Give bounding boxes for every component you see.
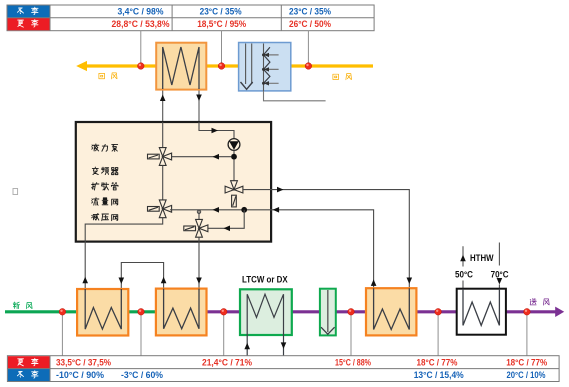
pipe pump to junction	[233, 150, 235, 156]
top table column borders	[50, 5, 281, 31]
supply air line (purple)	[207, 310, 556, 313]
bottom sensor drop line 4	[350, 314, 352, 356]
top table frame	[7, 5, 374, 31]
label ye-li-beng (hydraulic pump)	[92, 144, 99, 151]
bottom table frame	[7, 356, 559, 382]
pipe junction to valve V1	[170, 156, 231, 158]
sensor drop line 2 (top)	[221, 31, 223, 64]
three-way valve V1	[148, 148, 172, 166]
circulating pump	[228, 139, 240, 151]
preheat coil HX1 (orange)	[77, 289, 128, 336]
svg-text:23°C / 35%: 23°C / 35%	[200, 7, 242, 17]
bottom sensor drop line 1	[61, 314, 63, 356]
valve V4 stem up	[198, 211, 200, 220]
small junction ring at valve V4 stem	[197, 210, 200, 213]
bottom table header cell summer (red)	[8, 356, 50, 368]
top table winter values (blue)	[118, 7, 332, 17]
bottom table summer values (red)	[56, 357, 547, 367]
sensor drop line 3 (top)	[307, 31, 309, 64]
arrow up on HTHW left pipe	[460, 255, 466, 261]
red sensor node bottom 5	[435, 309, 442, 316]
HTHW heater box	[457, 289, 506, 335]
bottom sensor drop line 5	[437, 314, 439, 356]
arrow up into recovery coil left pipe	[160, 95, 166, 102]
red sensor node bottom 3	[220, 309, 227, 316]
pipe valve V4 down out of box to coil HX2	[198, 237, 200, 288]
svg-text:50°C: 50°C	[455, 270, 474, 280]
bottom table header column border	[49, 356, 51, 382]
svg-text:-3°C / 60%: -3°C / 60%	[121, 370, 163, 380]
pipe junction B down to valve V4 branch	[206, 210, 244, 229]
pipe valve V1 to valve V2	[162, 165, 164, 200]
red sensor node bottom 2	[138, 309, 145, 316]
series link pipe HX2 left to HX1 right	[121, 263, 163, 289]
label xin-feng (fresh air, green)	[13, 302, 19, 309]
bottom sensor drop line 3	[223, 314, 225, 356]
header text xia-ji (summer) white	[18, 20, 24, 27]
pipe from recovery HX down-left into control box	[162, 47, 164, 122]
red sensor node on yellow line 1	[138, 63, 145, 70]
top table header cell winter (blue)	[8, 6, 51, 18]
arrow right leaving control box	[277, 187, 284, 193]
svg-text:13°C / 15,4%: 13°C / 15,4%	[414, 370, 464, 380]
sensor drop line 1 (top)	[140, 31, 142, 64]
junction node B	[241, 207, 247, 213]
arrow up out of coil HX3 left pipe	[371, 279, 377, 286]
junction node A	[231, 154, 237, 160]
pipe valve V3 right out of box to coil HX3	[243, 190, 409, 288]
pipe top HX into valve V1	[162, 122, 164, 148]
label jian-ya-fa (pressure reducing valve)	[92, 213, 99, 220]
reheat coil HX3 (orange)	[366, 288, 416, 335]
steam humidifier box (blue)	[239, 43, 291, 91]
header text xia-ji (summer) white	[18, 359, 24, 366]
cooling coil LTCW/DX (green)	[240, 289, 292, 355]
return air arrowhead (left)	[76, 61, 87, 71]
top table header cell summer (red)	[8, 18, 51, 30]
arrow down out of cooling coil	[281, 342, 287, 349]
svg-text:26°C / 50%: 26°C / 50%	[289, 19, 331, 29]
red sensor node bottom 4	[348, 309, 355, 316]
HTHW pipe up (50C)	[462, 246, 464, 289]
arrow down into heater	[497, 278, 503, 285]
svg-text:18°C / 77%: 18°C / 77%	[506, 357, 547, 367]
arrow down out of recovery coil right pipe	[196, 95, 202, 102]
svg-text:15°C / 88%: 15°C / 88%	[335, 357, 371, 367]
red sensor node bottom 1	[59, 309, 66, 316]
red sensor node on yellow line 3	[305, 63, 312, 70]
svg-text:23°C / 35%: 23°C / 35%	[289, 7, 331, 17]
top table row divider	[7, 17, 374, 19]
header text dong-ji (winter) white	[17, 371, 23, 377]
top table summer values (red)	[112, 19, 332, 29]
bottom table header cell winter (blue)	[8, 369, 50, 381]
label kuo-zhang-guan (expansion pipe)	[92, 183, 99, 190]
fresh air line (green)	[5, 310, 156, 313]
svg-text:-10°C / 90%: -10°C / 90%	[56, 370, 104, 380]
bottom sensor drop line 2	[140, 314, 142, 356]
arrow left entering control box	[273, 207, 280, 213]
arrow left toward valve V1	[213, 154, 220, 160]
return air line (yellow)	[86, 64, 373, 67]
supply air arrowhead	[555, 307, 564, 317]
bottom table row divider	[7, 368, 559, 370]
label hui-feng right (return air)	[333, 74, 339, 79]
pipe from recovery HX down-right into control box	[198, 47, 200, 122]
svg-text:HTHW: HTHW	[470, 253, 494, 263]
red sensor node on yellow line 2	[218, 63, 225, 70]
stray tofu glyph box	[13, 189, 18, 195]
red sensor node bottom 6	[524, 309, 531, 316]
svg-text:28,8°C / 53,8%: 28,8°C / 53,8%	[112, 19, 170, 29]
label hui-feng left (return air)	[99, 73, 105, 78]
droplet eliminator (narrow green)	[320, 289, 336, 336]
arrow up into control box from HX1	[82, 277, 88, 284]
arrow left toward valve V2	[213, 207, 220, 213]
svg-text:18°C / 77%: 18°C / 77%	[417, 357, 458, 367]
pipe junction down to valve V3	[233, 159, 235, 181]
arrow right on pump feed	[212, 128, 219, 134]
arrow up into cooling coil	[244, 343, 250, 350]
svg-text:21,4°C / 71%: 21,4°C / 71%	[202, 357, 252, 367]
bottom table winter values (blue)	[56, 370, 546, 380]
bottom sensor drop line 6	[526, 314, 528, 356]
svg-text:70°C: 70°C	[491, 270, 510, 280]
arrow down into coil HX2 right pipe	[196, 278, 202, 285]
three-way valve V4	[184, 219, 208, 237]
svg-text:LTCW or DX: LTCW or DX	[242, 274, 288, 285]
svg-text:20°C / 10%: 20°C / 10%	[507, 370, 546, 380]
heat recovery coil (return air, orange)	[156, 43, 206, 90]
pipe to pump (top run)	[199, 122, 234, 139]
label bian-pin-qi (frequency converter)	[92, 167, 98, 174]
HTHW pipe down (70C)	[498, 243, 500, 289]
return pipe from HX3 left into control box	[170, 210, 374, 288]
header text dong-ji (winter) white	[17, 8, 23, 14]
coil HX2 (orange)	[156, 289, 207, 336]
three-way valve V3	[225, 181, 243, 207]
arrow down into coil HX1 right pipe	[119, 278, 125, 285]
arrow up from coil HX2 left pipe	[161, 277, 167, 284]
svg-text:18,5°C / 95%: 18,5°C / 95%	[197, 19, 246, 29]
hydronic control box (cream)	[76, 122, 271, 242]
arrow down into coil HX3 right pipe	[407, 278, 413, 285]
pipe valve V2 down-left out of box to coil HX1	[85, 218, 163, 288]
svg-text:3,4°C / 98%: 3,4°C / 98%	[118, 7, 164, 17]
humidifier water drain line	[264, 91, 326, 101]
BOTTOM TABLE	[7, 356, 559, 382]
TOP TABLE	[7, 5, 374, 31]
svg-text:33,5°C / 37,5%: 33,5°C / 37,5%	[56, 357, 111, 367]
three-way valve V2	[148, 200, 172, 218]
label song-feng (supply air, purple)	[530, 298, 536, 305]
arrow left toward valve V4	[224, 226, 231, 232]
label liu-liang-fa (flow valve)	[92, 198, 99, 205]
